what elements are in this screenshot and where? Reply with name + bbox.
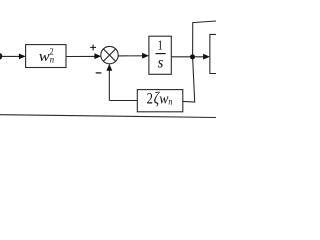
block 1/s <box>149 36 171 74</box>
svg-text:w: w <box>39 49 50 65</box>
block w_n^2 <box>26 45 66 68</box>
label 1/s <box>156 38 166 71</box>
wire bottom outer feedback line <box>0 115 216 118</box>
wire 2*zeta*w_n output going left <box>109 100 137 102</box>
block 2*zeta*w_n <box>137 90 183 112</box>
node stub at left edge (cropped junction dot) <box>0 53 2 60</box>
svg-text:n: n <box>50 56 55 66</box>
label 2 zeta w_n <box>147 89 173 108</box>
arrowhead into w_n^2 box <box>19 54 26 60</box>
plus sign at summing junction <box>90 45 96 51</box>
arrowhead into summing junction from below (minus) <box>106 64 112 71</box>
junction dot after 1/s <box>190 54 195 59</box>
wire pickoff down to 2*zeta*w_n input <box>183 57 195 102</box>
minus sign at summing junction <box>96 72 102 74</box>
wire feedback up into summing junction minus input <box>108 68 110 101</box>
right block (cut off at image edge) <box>210 34 216 73</box>
wire 1/s box to right box with pickoff <box>171 56 205 58</box>
wire w_n^2 box to summing junction <box>66 55 97 57</box>
svg-text:s: s <box>158 54 164 71</box>
arrowhead into summing junction <box>94 53 101 59</box>
wire input from left edge <box>0 55 21 57</box>
svg-text:1: 1 <box>158 38 163 53</box>
arrowhead into 1/s box <box>142 53 149 59</box>
arrowhead into right box <box>203 54 210 60</box>
wire pickoff riser up to top line <box>193 21 216 57</box>
wire summing junction to 1/s box <box>118 55 143 57</box>
svg-text:n: n <box>168 98 172 108</box>
summing junction circle with X <box>101 46 118 63</box>
svg-text:w: w <box>159 91 168 107</box>
svg-text:2: 2 <box>147 90 153 107</box>
label w_n^2 <box>39 46 54 65</box>
